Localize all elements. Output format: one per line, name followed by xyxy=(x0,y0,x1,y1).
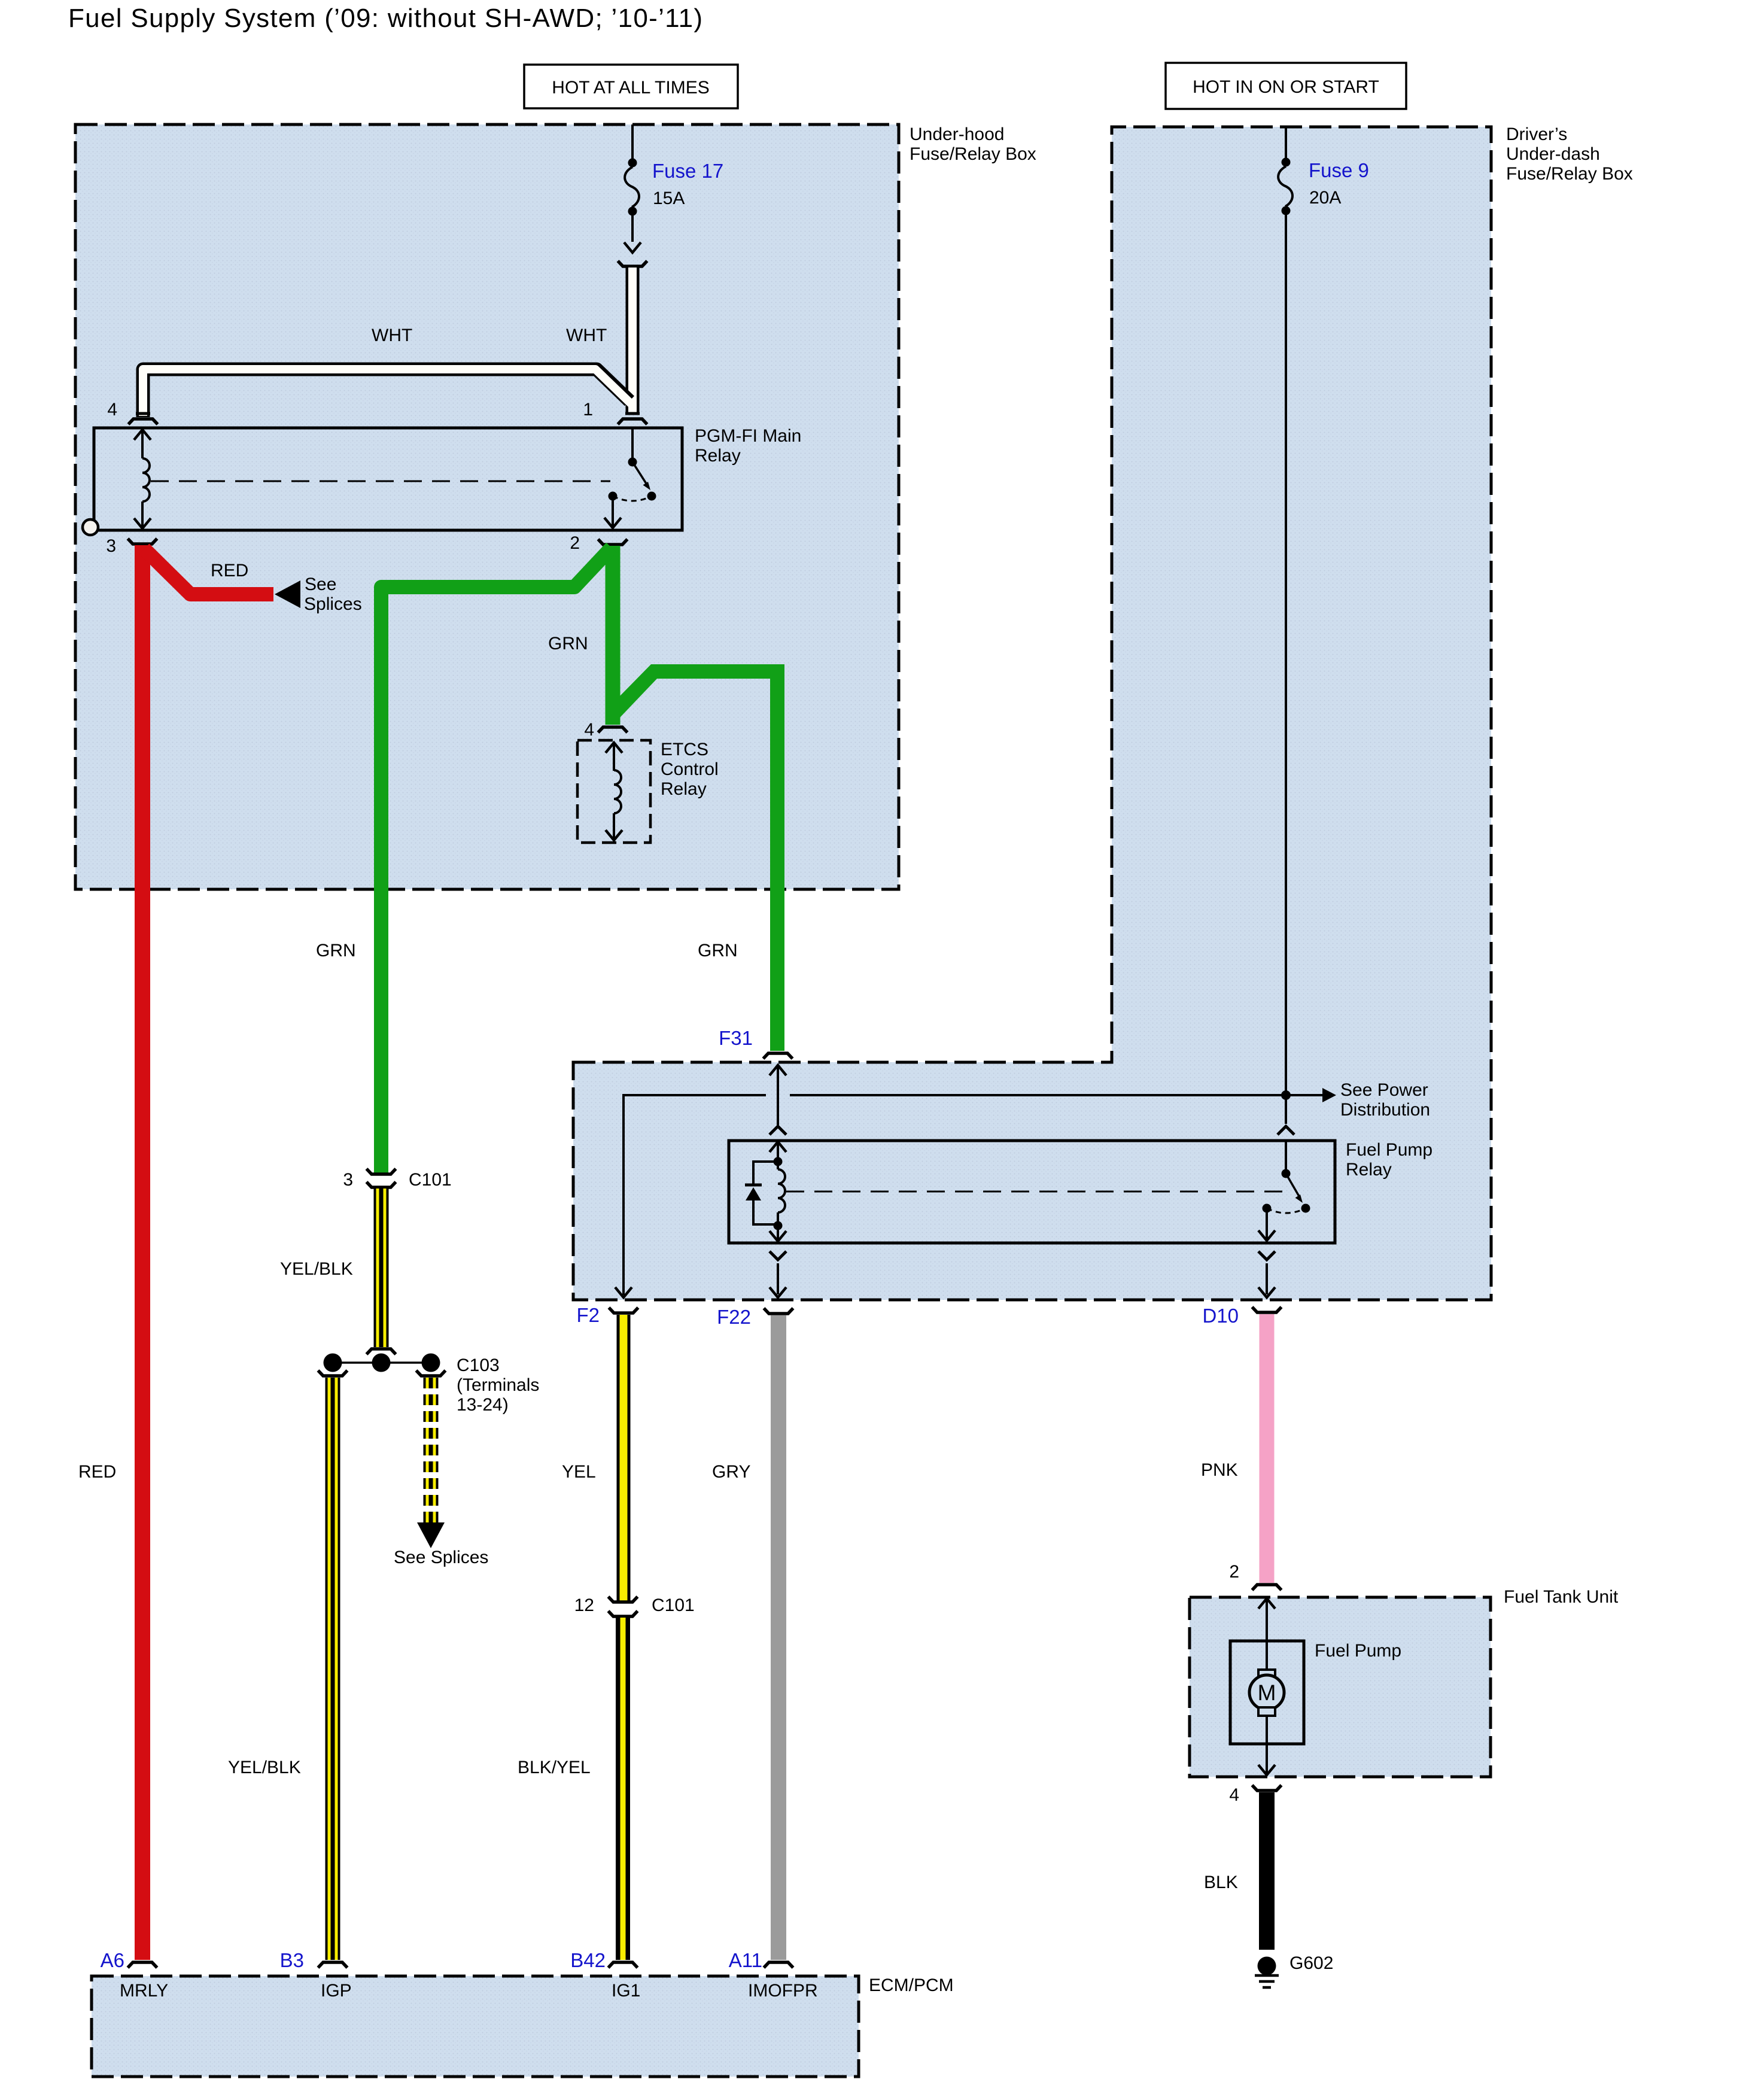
C101 connector pin 12 xyxy=(574,1595,695,1616)
svg-text:Relay: Relay xyxy=(695,446,741,466)
svg-text:Fuse/Relay Box: Fuse/Relay Box xyxy=(910,144,1036,164)
connector B42 at ECM xyxy=(570,1949,637,1971)
svg-text:Fuel Pump: Fuel Pump xyxy=(1346,1140,1433,1160)
svg-text:B3: B3 xyxy=(280,1949,304,1971)
svg-text:F22: F22 xyxy=(717,1306,751,1328)
pin 2 connector of PGM-FI main relay xyxy=(570,533,627,553)
svg-text:See Splices: See Splices xyxy=(394,1548,488,1567)
connector F2 xyxy=(576,1304,638,1326)
terminal IG1 xyxy=(612,1981,640,2001)
label BLK xyxy=(1204,1873,1238,1892)
wire GRN right branch (to F31) xyxy=(620,664,784,1051)
connector B3 at ECM xyxy=(280,1949,348,1971)
svg-text:Relay: Relay xyxy=(661,779,707,799)
svg-text:3: 3 xyxy=(106,536,116,556)
svg-text:Under-hood: Under-hood xyxy=(910,124,1004,144)
label WHT (right) xyxy=(566,326,607,345)
svg-text:ETCS: ETCS xyxy=(661,740,708,759)
chevron above fuel pump relay (fuse 9 side) xyxy=(1278,1126,1294,1135)
svg-text:HOT IN ON OR START: HOT IN ON OR START xyxy=(1193,77,1379,97)
pivot circle at PGM-FI relay lower-left corner xyxy=(83,519,98,535)
label YEL/BLK (upper) xyxy=(280,1259,353,1279)
svg-text:4: 4 xyxy=(584,720,594,740)
svg-text:Fuel Tank Unit: Fuel Tank Unit xyxy=(1504,1587,1619,1607)
svg-text:HOT AT ALL TIMES: HOT AT ALL TIMES xyxy=(552,78,709,98)
svg-text:RED: RED xyxy=(78,1462,116,1482)
svg-text:PNK: PNK xyxy=(1201,1460,1238,1480)
label GRN (near pin 2) xyxy=(548,634,588,654)
svg-text:A6: A6 xyxy=(101,1949,124,1971)
see power distribution line with junction xyxy=(615,1080,1430,1297)
fuel pump relay switch xyxy=(1258,1142,1310,1241)
svg-text:Splices: Splices xyxy=(304,594,362,614)
connector A11 at ECM xyxy=(729,1949,793,1971)
svg-text:Fuel Pump: Fuel Pump xyxy=(1315,1641,1401,1661)
wire into fuel tank unit xyxy=(1258,1598,1275,1670)
wire BLK/YEL (C101 pin 12 to ECM B42) xyxy=(616,1618,630,1960)
see splices arrow (red branch) xyxy=(275,575,362,614)
ECM/PCM box xyxy=(92,1975,954,2077)
svg-text:Fuse 9: Fuse 9 xyxy=(1309,159,1369,181)
svg-text:See Power: See Power xyxy=(1340,1080,1428,1100)
svg-text:BLK/YEL: BLK/YEL xyxy=(518,1758,591,1777)
fuel pump relay diode xyxy=(745,1162,778,1224)
C103 junction connector xyxy=(318,1349,540,1415)
PGM-FI main relay box xyxy=(94,426,801,530)
svg-text:2: 2 xyxy=(1229,1562,1239,1582)
wire WHT vertical (fuse 17 to PGM-FI pin 1) xyxy=(626,268,640,413)
connector under fuse 17 xyxy=(618,261,647,266)
svg-text:15A: 15A xyxy=(653,189,685,208)
wire GRY (F22 to ECM A11) xyxy=(771,1315,786,1960)
terminal MRLY xyxy=(120,1981,168,2001)
HOT IN ON OR START label box xyxy=(1166,63,1406,109)
svg-text:Control: Control xyxy=(661,759,719,779)
svg-text:B42: B42 xyxy=(570,1949,606,1971)
fuel tank pin 4 connector xyxy=(1229,1785,1281,1805)
svg-text:F2: F2 xyxy=(576,1304,600,1326)
svg-text:20A: 20A xyxy=(1309,188,1341,208)
wire from F31 into fuse box xyxy=(770,1065,786,1135)
svg-text:F31: F31 xyxy=(719,1027,753,1049)
fuel pump motor M xyxy=(1249,1670,1284,1716)
svg-text:GRY: GRY xyxy=(712,1462,750,1482)
ETCS control relay box xyxy=(577,740,719,843)
svg-text:GRN: GRN xyxy=(698,941,738,961)
svg-text:IMOFPR: IMOFPR xyxy=(748,1981,818,2001)
svg-text:GRN: GRN xyxy=(548,634,588,654)
connector F31 xyxy=(719,1027,792,1059)
label GRY xyxy=(712,1462,750,1482)
wire GRN from pin 2 down to ETCS relay xyxy=(606,546,621,725)
svg-text:RED: RED xyxy=(211,561,248,580)
label RED (upper) xyxy=(211,561,248,580)
PGM-FI relay coil with arrows xyxy=(134,430,151,528)
svg-text:MRLY: MRLY xyxy=(120,1981,168,2001)
C101 connector pin 3 xyxy=(343,1169,451,1190)
wire PNK (D10 to fuel tank pin 2) xyxy=(1260,1314,1275,1583)
svg-text:Fuel Supply System (’09: witho: Fuel Supply System (’09: without SH-AWD;… xyxy=(68,4,703,33)
pin 4 connector of PGM-FI main relay xyxy=(107,400,157,424)
svg-text:WHT: WHT xyxy=(566,326,607,345)
svg-text:GRN: GRN xyxy=(316,941,356,961)
ETCS control relay pin 4 connector xyxy=(584,720,627,740)
fuel tank pin 2 connector xyxy=(1229,1562,1281,1590)
wire from relay to D10 xyxy=(1258,1251,1275,1297)
svg-text:(Terminals: (Terminals xyxy=(457,1375,539,1395)
svg-text:4: 4 xyxy=(1229,1785,1239,1805)
wire from motor to tank bottom xyxy=(1258,1716,1275,1775)
connector A6 at ECM xyxy=(101,1949,157,1971)
driver's under-dash fuse/relay box (with lower-left extension) xyxy=(573,124,1633,1300)
PGM-FI relay switch xyxy=(604,429,656,528)
pin 3 connector of PGM-FI main relay xyxy=(106,536,157,556)
label BLK/YEL xyxy=(518,1758,591,1777)
wire from fuse 9 down to fuel pump relay xyxy=(1285,211,1287,1124)
svg-text:IG1: IG1 xyxy=(612,1981,640,2001)
svg-text:Distribution: Distribution xyxy=(1340,1100,1430,1120)
svg-text:IGP: IGP xyxy=(321,1981,352,2001)
pin 1 connector of PGM-FI main relay xyxy=(583,400,647,424)
label WHT (left) xyxy=(372,326,412,345)
svg-text:YEL/BLK: YEL/BLK xyxy=(228,1758,301,1777)
wire YEL/BLK (C103 to ECM B3) xyxy=(326,1378,340,1960)
wire BLK (fuel tank to G602) xyxy=(1259,1792,1275,1950)
fuel tank unit box xyxy=(1190,1587,1619,1777)
svg-text:Fuse 17: Fuse 17 xyxy=(652,160,723,182)
svg-text:PGM-FI Main: PGM-FI Main xyxy=(695,426,801,446)
label RED (lower) xyxy=(78,1462,116,1482)
fuel pump box xyxy=(1230,1641,1401,1744)
svg-text:YEL/BLK: YEL/BLK xyxy=(280,1259,353,1279)
wire RED vertical (pin 3 to ECM A6) xyxy=(135,545,150,1960)
fuse 9 xyxy=(1278,127,1369,215)
wire RED branch to see splices xyxy=(144,549,273,594)
terminal IMOFPR xyxy=(748,1981,818,2001)
label GRN (right wire below box) xyxy=(698,941,738,961)
svg-text:WHT: WHT xyxy=(372,326,412,345)
under-hood fuse/relay box xyxy=(75,124,1036,889)
label YEL xyxy=(562,1462,596,1482)
wire YEL/BLK dashed stub (C103 to splices) xyxy=(424,1378,439,1522)
terminal IGP xyxy=(321,1981,352,2001)
HOT AT ALL TIMES label box xyxy=(524,65,738,108)
wire YEL/BLK (C101 to C103) xyxy=(374,1189,389,1347)
svg-text:Driver’s: Driver’s xyxy=(1506,124,1567,144)
connector F22 xyxy=(717,1306,793,1328)
fuel pump relay dashed actuation link xyxy=(786,1191,1284,1193)
svg-text:Fuse/Relay Box: Fuse/Relay Box xyxy=(1506,164,1633,184)
label YEL/BLK (lower) xyxy=(228,1758,301,1777)
svg-text:Under-dash: Under-dash xyxy=(1506,144,1600,164)
label GRN (left wire below box) xyxy=(316,941,356,961)
fuel pump relay coil with arrows xyxy=(770,1142,786,1241)
fuse 17 xyxy=(625,124,723,242)
PGM-FI relay dashed actuation link xyxy=(151,481,610,482)
svg-text:3: 3 xyxy=(343,1170,353,1190)
wire from relay to F22 xyxy=(770,1251,786,1297)
wire YEL (F2 to C101 pin 12) xyxy=(617,1315,631,1603)
svg-text:2: 2 xyxy=(570,533,580,553)
svg-text:4: 4 xyxy=(107,400,117,420)
svg-text:C101: C101 xyxy=(409,1170,452,1190)
see splices arrow (C103 stub) xyxy=(394,1522,488,1567)
svg-text:BLK: BLK xyxy=(1204,1873,1238,1892)
svg-text:ECM/PCM: ECM/PCM xyxy=(869,1975,954,1995)
svg-text:YEL: YEL xyxy=(562,1462,596,1482)
title xyxy=(68,4,703,33)
ground G602 xyxy=(1255,1953,1333,1987)
svg-text:C101: C101 xyxy=(652,1595,695,1615)
wire GRN left branch (pin 2 to C101 pin 3) xyxy=(381,548,612,1174)
ETCS relay coil with arrows xyxy=(606,743,622,840)
fuel pump relay box xyxy=(729,1140,1433,1243)
svg-text:M: M xyxy=(1258,1680,1276,1705)
svg-text:G602: G602 xyxy=(1289,1953,1333,1973)
svg-text:1: 1 xyxy=(583,400,593,420)
svg-text:C103: C103 xyxy=(457,1355,500,1375)
svg-text:13-24): 13-24) xyxy=(457,1395,509,1415)
label PNK xyxy=(1201,1460,1238,1480)
svg-text:See: See xyxy=(305,575,336,594)
svg-text:12: 12 xyxy=(574,1595,594,1615)
wire WHT horizontal+diagonal (pin 4 to pin 1) xyxy=(136,369,640,417)
svg-text:Relay: Relay xyxy=(1346,1160,1392,1180)
svg-text:D10: D10 xyxy=(1202,1305,1239,1327)
arrow from fuse 17 to connector xyxy=(624,242,641,253)
connector D10 xyxy=(1202,1305,1281,1327)
svg-text:A11: A11 xyxy=(729,1949,762,1971)
